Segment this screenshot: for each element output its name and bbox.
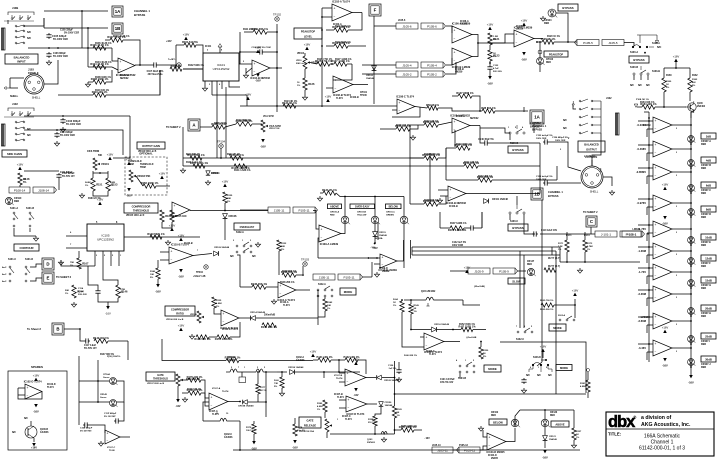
label IC107-A <box>212 387 229 393</box>
svg-text:+: + <box>655 143 657 147</box>
label TO SHEET 2 <box>56 275 72 279</box>
label C153 <box>536 176 553 181</box>
label -1.76V <box>638 227 646 231</box>
svg-text:−: − <box>27 393 29 397</box>
label R140 <box>150 270 156 279</box>
resistor R137b <box>454 143 472 150</box>
label CR103 <box>546 59 554 64</box>
wire <box>204 81 206 86</box>
resistor R148 <box>18 173 30 185</box>
wire <box>646 176 648 184</box>
label C111 <box>62 173 75 178</box>
svg-text:5%: 5% <box>274 386 277 388</box>
resistor R115 <box>190 161 209 168</box>
ground <box>85 82 90 87</box>
label R171 <box>558 243 564 251</box>
svg-text:IC103-B NE5532: IC103-B NE5532 <box>446 201 466 205</box>
junction <box>331 63 333 65</box>
label CR107-A RED <box>701 140 711 146</box>
value label <box>243 29 258 31</box>
svg-text:+: + <box>348 398 350 402</box>
svg-text:DUTY (X.Y): DUTY (X.Y) <box>548 266 560 268</box>
resistor R114 <box>229 153 244 160</box>
wire <box>453 449 459 451</box>
junction <box>323 371 325 373</box>
svg-text:−: − <box>174 212 176 216</box>
wire vertical <box>409 125 411 204</box>
wire <box>196 45 203 53</box>
value label <box>470 118 479 120</box>
resistor R111 <box>252 27 269 34</box>
label C109 <box>251 46 270 49</box>
svg-text:+: + <box>426 335 428 339</box>
wire <box>88 81 93 83</box>
power -16V <box>31 443 37 450</box>
svg-text:THRESHOLD: THRESHOLD <box>133 209 149 213</box>
wire <box>200 126 212 128</box>
value label <box>350 97 359 99</box>
wire <box>374 224 376 232</box>
svg-text:-16V: -16V <box>662 222 668 226</box>
wire <box>663 92 665 107</box>
svg-text:75K: 75K <box>70 262 74 264</box>
svg-text:P[50] 100/1%: P[50] 100/1% <box>107 356 120 358</box>
diode CR109 <box>214 251 219 256</box>
wire <box>353 84 368 86</box>
label OVER-EASY <box>234 223 260 230</box>
pin numbers IC105 <box>96 255 122 257</box>
diode CR102 <box>372 66 377 71</box>
wire <box>489 142 540 144</box>
label S100-C <box>510 220 518 223</box>
resistor R164 <box>640 102 657 109</box>
stub <box>426 303 429 306</box>
relay S100-B contacts <box>633 66 649 75</box>
resistor R124 <box>282 101 297 108</box>
value label <box>128 161 142 163</box>
wire <box>120 402 124 421</box>
svg-text:Q101 2N4402: Q101 2N4402 <box>421 290 436 293</box>
wire to 1A <box>44 10 108 12</box>
wire <box>88 66 112 68</box>
wire <box>675 62 677 68</box>
svg-text:IC103-A: IC103-A <box>456 115 465 118</box>
power -16V <box>487 76 493 86</box>
switch S101-C/D contacts <box>9 266 30 282</box>
svg-text:+: + <box>655 223 657 227</box>
junction <box>690 202 692 204</box>
connector bar <box>2 124 6 146</box>
svg-text:TL074: TL074 <box>336 377 343 380</box>
svg-text:a division of: a division of <box>641 415 672 421</box>
wire <box>551 247 553 255</box>
transistor Q102-C CA3046 <box>203 413 240 439</box>
resistor R129 <box>223 192 227 203</box>
svg-text:2dB: 2dB <box>706 134 711 138</box>
wire <box>637 106 642 108</box>
net label P108-14 <box>9 187 30 193</box>
wire <box>394 418 396 434</box>
switch S102-A contacts <box>317 286 333 297</box>
wire IC105 pin <box>110 251 112 266</box>
svg-text:+: + <box>399 101 401 105</box>
wire <box>190 210 268 212</box>
value label <box>516 26 525 28</box>
wire <box>437 329 461 331</box>
label BELOW <box>386 204 402 209</box>
value label <box>186 154 201 156</box>
wire <box>277 371 287 373</box>
wire <box>220 148 222 158</box>
svg-text:AKG Acoustics, Inc.: AKG Acoustics, Inc. <box>641 422 691 428</box>
svg-text:100 1%: 100 1% <box>246 430 253 432</box>
op-amp IC110-B <box>169 243 193 265</box>
svg-text:1%: 1% <box>70 265 73 267</box>
capacitor C111 <box>56 173 61 179</box>
wire <box>224 203 226 211</box>
wire <box>689 68 691 78</box>
svg-text:-0.976V: -0.976V <box>637 201 647 205</box>
svg-text:-2.36M: -2.36M <box>638 292 647 296</box>
label Q100 <box>697 103 706 108</box>
ground <box>396 377 401 382</box>
svg-text:4.7uF: 4.7uF <box>493 67 499 70</box>
wire <box>647 275 653 277</box>
junction <box>690 124 692 126</box>
transistor Q102-B CA3046 <box>226 357 277 372</box>
ground <box>381 437 386 442</box>
label C107 <box>147 71 164 76</box>
wire comparator out <box>672 148 691 150</box>
op-amp IC107-D <box>346 396 367 416</box>
junction <box>690 167 692 169</box>
switch S102-C contacts <box>516 326 533 333</box>
svg-text:N/C: N/C <box>24 418 28 420</box>
svg-text:−: − <box>655 253 657 257</box>
svg-text:RED: RED <box>701 315 706 318</box>
value label <box>120 78 129 80</box>
op-amp IC116-C <box>653 286 672 302</box>
svg-text:RATIO: RATIO <box>176 313 184 316</box>
wire <box>524 230 535 234</box>
svg-text:+: + <box>321 227 323 231</box>
svg-text:+: + <box>454 50 456 54</box>
junction <box>648 224 650 226</box>
resistor R138 <box>194 335 211 341</box>
wire op-amp out <box>135 64 152 66</box>
LED CR107-G <box>688 280 696 287</box>
svg-text:5%: 5% <box>493 56 496 58</box>
svg-text:1B: 1B <box>534 192 540 197</box>
svg-text:CKS TRIM: CKS TRIM <box>87 150 99 153</box>
wire <box>296 274 303 276</box>
LED CR102 <box>511 419 520 427</box>
LED CR147 <box>527 268 535 276</box>
label <box>375 237 383 240</box>
net label P108-1 <box>622 231 641 237</box>
sheet connector F <box>369 4 381 16</box>
net label J105-9 <box>468 268 490 274</box>
label R-86 <box>404 355 417 357</box>
wire <box>382 377 395 379</box>
power +16V <box>521 18 528 26</box>
diode CR101 <box>484 199 489 204</box>
svg-text:CR101 1N4148: CR101 1N4148 <box>492 198 509 201</box>
shell ground <box>5 86 11 90</box>
label COMPRESSOR THRESHOLD <box>124 203 158 213</box>
power +16V <box>222 179 229 187</box>
value label <box>64 33 79 35</box>
value label <box>379 268 388 270</box>
svg-text:1K: 1K <box>576 434 579 436</box>
power +16V <box>572 288 579 296</box>
svg-text:+: + <box>516 32 518 36</box>
resistor R108 <box>91 77 109 84</box>
ground <box>33 236 38 241</box>
resistor R138b <box>281 270 298 277</box>
sheet connector 1A <box>112 6 123 17</box>
wire <box>647 297 653 299</box>
op-amp IC104-B <box>250 60 270 80</box>
op-amp IC102-B <box>333 76 353 97</box>
wire <box>244 31 253 33</box>
ground <box>243 73 248 78</box>
svg-text:N/C: N/C <box>630 85 634 87</box>
power +16V <box>159 171 166 179</box>
junction <box>374 243 376 245</box>
svg-text:TP404: TP404 <box>196 271 203 274</box>
wire <box>490 42 514 44</box>
svg-text:BYPASS: BYPASS <box>134 13 145 17</box>
label DUTY <box>548 266 560 268</box>
wire <box>362 64 396 66</box>
junction <box>663 106 665 108</box>
power +16V <box>540 344 547 352</box>
svg-text:TO SHEET 2: TO SHEET 2 <box>56 275 72 279</box>
power +16V <box>33 373 40 381</box>
resistor R131 <box>231 164 250 170</box>
label <box>23 179 26 184</box>
svg-text:-16V: -16V <box>178 275 184 279</box>
svg-text:R129: R129 <box>227 195 233 197</box>
pin number <box>197 250 199 252</box>
svg-text:TL074: TL074 <box>283 304 290 307</box>
svg-text:P105-9: P105-9 <box>499 270 509 274</box>
svg-text:S103-A: S103-A <box>558 314 566 317</box>
resistor R127 <box>456 91 474 98</box>
svg-text:−: − <box>223 320 225 324</box>
wire <box>647 128 653 130</box>
svg-text:IC110-D TL074: IC110-D TL074 <box>222 328 239 331</box>
wire long rail <box>240 105 397 107</box>
junction <box>690 171 692 173</box>
svg-text:402K: 402K <box>110 181 116 184</box>
svg-text:2: 2 <box>676 232 677 234</box>
svg-text:-0.236V: -0.236V <box>637 123 647 127</box>
wire <box>347 63 352 65</box>
wire pin to IC105 <box>66 235 87 237</box>
wire <box>374 25 396 27</box>
value label <box>432 445 441 447</box>
op-amp IC115-C <box>653 164 672 180</box>
svg-text:52K: 52K <box>281 246 285 248</box>
wire vertical <box>265 372 267 417</box>
svg-text:5%: 5% <box>150 277 153 279</box>
svg-text:IC104-D 2N005: IC104-D 2N005 <box>487 450 506 454</box>
svg-text:1N4148: 1N4148 <box>549 438 557 441</box>
ground <box>205 180 210 185</box>
wire <box>544 410 546 419</box>
power -16V <box>521 52 527 62</box>
label CR107-G RED <box>701 284 711 290</box>
svg-text:C110 12uF 16V: C110 12uF 16V <box>541 230 558 232</box>
value label <box>640 101 655 104</box>
svg-text:4.99K: 4.99K <box>216 302 222 305</box>
svg-text:+: + <box>655 315 657 319</box>
wire <box>14 228 36 236</box>
junction <box>321 105 323 107</box>
test point TP102 <box>273 13 281 22</box>
wire <box>638 167 653 169</box>
ground <box>410 135 415 140</box>
op-amp IC102-D <box>24 380 42 400</box>
junction <box>265 371 267 373</box>
wire <box>480 449 487 451</box>
svg-text:(25mV/dB): (25mV/dB) <box>474 286 485 288</box>
wire <box>472 35 478 44</box>
svg-text:INPUT: INPUT <box>17 60 26 64</box>
capacitor C126 <box>396 368 401 374</box>
resistor R175 <box>252 424 256 434</box>
resistor R162 <box>688 78 692 92</box>
ground <box>302 95 307 100</box>
resistor R157c <box>225 356 241 363</box>
label CR107-E RED <box>701 241 711 247</box>
wire <box>127 341 129 360</box>
wire <box>403 224 405 268</box>
svg-text:IC108-C TL074: IC108-C TL074 <box>396 95 414 99</box>
test point TP103 <box>301 258 309 267</box>
wire <box>410 124 424 126</box>
wire <box>398 362 400 368</box>
label VR107 <box>269 128 280 130</box>
svg-text:P108 OK 1%: P108 OK 1% <box>636 99 649 101</box>
wire <box>338 360 340 372</box>
label 10dB <box>701 234 716 240</box>
ground <box>437 198 442 203</box>
switch S103-D contacts <box>529 359 552 372</box>
net label J105-5 <box>602 40 624 46</box>
resistor R157b <box>215 335 233 341</box>
svg-text:-16V: -16V <box>542 456 548 460</box>
svg-text:73K: 73K <box>274 383 278 385</box>
wire <box>87 28 89 67</box>
label N/C <box>12 432 16 434</box>
label -1.36M <box>638 249 647 253</box>
resistor R178 <box>293 424 297 436</box>
svg-text:+: + <box>335 78 337 82</box>
label VR105 <box>126 215 145 217</box>
svg-text:UPC1253N2: UPC1253N2 <box>97 238 114 242</box>
ground <box>180 168 185 173</box>
wire <box>689 92 691 101</box>
wire <box>646 233 648 241</box>
svg-text:9: 9 <box>546 367 547 369</box>
svg-text:+: + <box>454 28 456 32</box>
wire <box>107 171 109 178</box>
svg-text:+: + <box>120 60 122 64</box>
svg-text:CR102: CR102 <box>491 412 499 414</box>
junction <box>56 129 58 131</box>
svg-text:S104-B: S104-B <box>458 377 466 380</box>
svg-text:LVC18: LVC18 <box>641 316 649 319</box>
svg-text:10dB: 10dB <box>705 235 712 239</box>
power +16V <box>245 92 252 100</box>
svg-text:1%: 1% <box>281 249 284 251</box>
wire <box>219 47 221 53</box>
wire long <box>318 257 377 259</box>
capacitor C153 <box>543 180 549 185</box>
svg-text:N/C: N/C <box>563 120 567 122</box>
svg-text:N/C: N/C <box>548 375 552 377</box>
label R140 73K <box>274 380 280 388</box>
wire long bottom rail <box>233 449 580 451</box>
junction <box>648 246 650 248</box>
value label <box>334 394 343 396</box>
value label <box>398 20 406 22</box>
svg-text:2: 2 <box>676 206 677 208</box>
value label <box>212 413 219 416</box>
junction <box>368 257 370 259</box>
svg-text:R100-B: R100-B <box>510 142 519 145</box>
power +16V <box>255 45 262 53</box>
value label <box>188 65 205 67</box>
op-amp IC115-D <box>653 195 672 211</box>
svg-text:1A: 1A <box>115 9 121 14</box>
label CR124 <box>544 19 552 25</box>
label CR123 <box>550 412 558 417</box>
wire <box>79 401 110 403</box>
svg-text:P-101-1: P-101-1 <box>626 233 637 237</box>
svg-text:+16V: +16V <box>31 447 37 450</box>
wire <box>30 421 32 426</box>
capacitor C106 <box>46 52 51 58</box>
wire <box>638 267 653 269</box>
wire <box>106 70 160 95</box>
power +16V <box>662 182 669 190</box>
value label <box>113 35 130 38</box>
junction <box>81 10 83 12</box>
power +16V <box>107 152 114 160</box>
LED CR116-C <box>400 216 409 224</box>
power +16V <box>673 54 680 62</box>
switch S104-D contacts <box>456 359 475 373</box>
wire <box>318 311 325 317</box>
svg-text:R127 6388 1%: R127 6388 1% <box>456 91 474 95</box>
svg-text:1N4148: 1N4148 <box>379 234 387 237</box>
svg-text:THRESHOLD: THRESHOLD <box>153 378 168 381</box>
svg-text:P105-11: P105-11 <box>464 449 475 453</box>
wire <box>544 427 546 435</box>
svg-text:-1.73V: -1.73V <box>638 270 646 274</box>
sheet connector A <box>188 119 200 131</box>
label AKG Acoustics <box>641 415 691 428</box>
wire <box>439 212 441 228</box>
wire comparator out <box>672 347 691 349</box>
svg-text:IC109-C: IC109-C <box>426 351 435 353</box>
svg-text:−: − <box>655 350 657 354</box>
label R165 <box>397 409 403 417</box>
